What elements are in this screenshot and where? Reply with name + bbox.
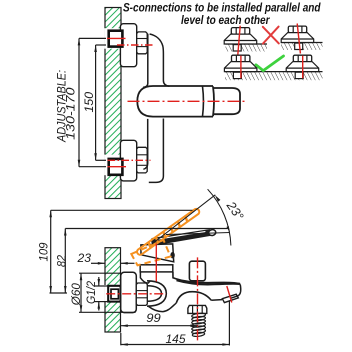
nut bottom [137,147,148,173]
svg-text:150: 150 [84,91,96,112]
svg-text:145: 145 [166,334,187,346]
right-row left S-connection icon [224,55,257,78]
dimension 150 [96,45,106,160]
S-connection pipe top [109,31,123,47]
wall (side view) [105,248,121,332]
outlet hex [188,305,207,313]
escutcheon [121,272,137,312]
diverter dome [176,292,211,303]
dimension 82 [65,229,227,294]
centerline spout tip [227,286,232,303]
spout underside left [149,303,177,312]
wrong-row right ground hatch [281,43,323,51]
dimension 109 [50,210,193,293]
neck bottom inner [143,119,147,169]
diverter knob [189,261,205,281]
centerline cartridge [155,244,157,282]
lever handle raised ghost (orange) [131,209,199,265]
centerline nut top [117,44,153,46]
dimension D60 [79,273,136,312]
svg-text:G1/2: G1/2 [86,280,98,304]
inlet elbow outer [147,281,166,306]
svg-text:23: 23 [76,253,91,265]
spout top second line [177,280,240,284]
neck top outer [150,34,170,86]
dimension 23 wall thickness [91,262,135,264]
neck bottom outer [149,119,164,183]
wrong-row left ground hatch [226,44,268,52]
angle arc 23deg [208,189,231,245]
supply pipe bore [111,289,118,299]
neck top inner [143,34,148,88]
body block under collar [140,272,150,283]
svg-text:130-170: 130-170 [66,87,78,140]
nut top [137,32,148,54]
supply pipe [108,286,120,302]
centerline inlet [106,293,166,295]
dimension 145 [121,302,230,346]
spout top edge [173,272,240,284]
dimension 99 [121,325,198,327]
wall recess bottom [104,155,121,176]
shower hose thread coil [192,313,206,337]
body cap [213,88,240,114]
handle base [141,244,174,262]
centerline shower outlet [197,257,199,340]
svg-text:level to each other: level to each other [181,13,271,27]
wrong-row left S-connection icon [224,26,257,55]
lever handle (rest position) [152,230,213,245]
body joint line [213,86,214,116]
angle reference line lower [166,233,230,235]
faucet body (top view) [137,86,213,117]
centerline pipe top [107,37,126,39]
escutcheon bottom [120,140,136,181]
centerline pipe bottom [108,166,127,168]
svg-text:Ø60: Ø60 [71,283,83,307]
svg-text:82: 82 [57,254,69,267]
inlet elbow inner [147,286,161,302]
svg-text:109: 109 [39,242,51,262]
wall (top view) [105,8,121,199]
right-row right S-connection icon [286,55,319,78]
body ring line [202,86,205,116]
spout tip outline [230,284,241,298]
escutcheon top [120,24,136,67]
aerator ring [222,294,238,302]
svg-text:99: 99 [146,313,161,325]
dimension G1/2 [95,277,109,311]
connection nut [136,283,147,305]
cartridge collar [140,265,173,272]
wall recess top [104,28,121,49]
wall recess [104,285,121,302]
wrong-row right S-connection icon [281,24,314,54]
green check mark [256,56,284,71]
dimension ADJUSTABLE 130-170 [79,38,106,166]
red X mark [263,27,279,44]
angle reference line upper [152,195,215,244]
right-row ground hatch [225,72,323,81]
S-connection pipe bottom [109,159,123,175]
centerline body [128,100,247,102]
centerline nut bottom [108,159,151,161]
lever socket [170,252,174,258]
spout bottom to aerator [211,299,222,302]
